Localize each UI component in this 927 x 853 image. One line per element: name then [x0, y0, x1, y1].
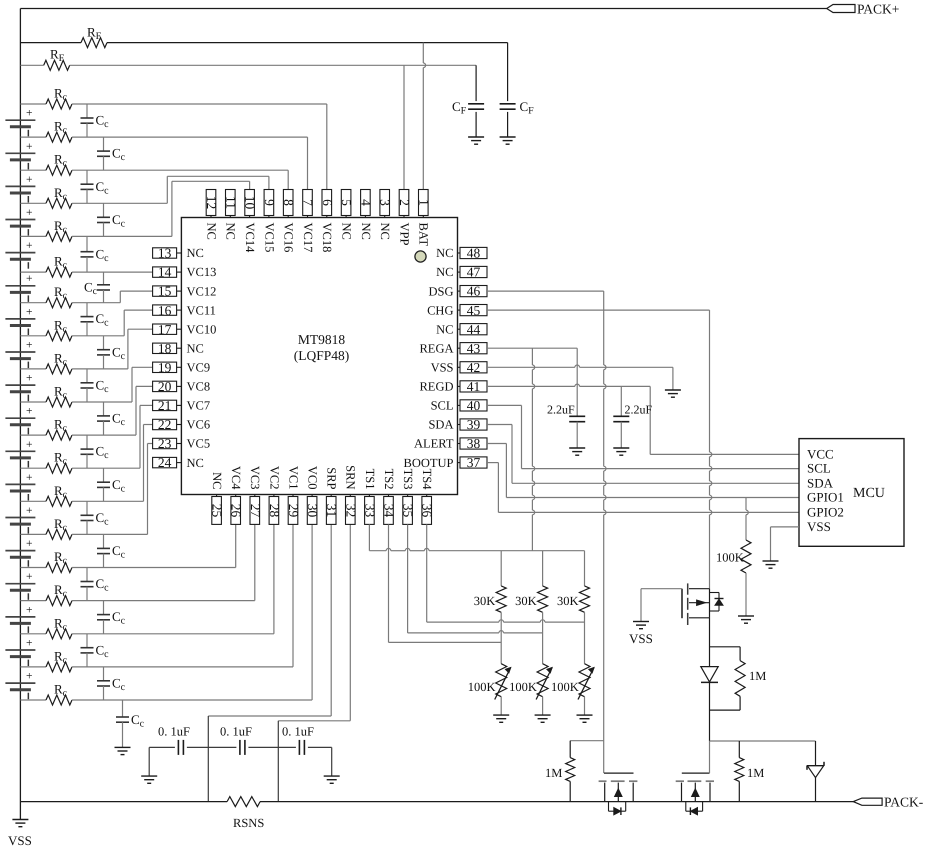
wire node CHG low: [710, 740, 816, 742]
svg-text:7: 7: [301, 199, 316, 206]
wire DSG net: [487, 291, 606, 773]
wire VC10 pin17: [128, 329, 153, 369]
svg-text:15: 15: [158, 284, 172, 299]
svg-text:30K: 30K: [474, 594, 496, 608]
svg-text:9: 9: [262, 199, 277, 206]
transistor Q3 (CHG FET): [676, 773, 714, 802]
battery cell B13: [5, 505, 35, 534]
svg-text:TS4: TS4: [420, 469, 434, 491]
svg-text:MCU: MCU: [853, 486, 885, 501]
wire Q1 gate to VSS: [641, 589, 682, 622]
svg-text:45: 45: [467, 303, 481, 318]
svg-text:SCL: SCL: [807, 461, 831, 476]
pin 14 VC13 (left): [153, 265, 217, 280]
pin 34 TS2 (bottom): [382, 469, 397, 525]
pin 39 SDA (right): [428, 417, 487, 432]
svg-text:100K: 100K: [716, 551, 744, 565]
battery cell B15: [5, 571, 35, 600]
wire PACK+ top rail: [20, 8, 826, 10]
transistor Q1 (CHG control FET): [682, 583, 710, 625]
wire VC1 pin29: [292, 524, 294, 667]
wire SRP pin31: [208, 524, 331, 801]
resistor Rc tap 15 (cell junction 15): [20, 582, 254, 606]
svg-text:VSS: VSS: [807, 519, 831, 534]
svg-text:14: 14: [158, 265, 172, 280]
capacitor Cc 17: [81, 634, 110, 667]
pin 12 NC (top): [204, 190, 219, 240]
resistor Rc tap 17 (cell junction 17): [20, 648, 293, 672]
resistor 1M R2 (parallel D2): [710, 647, 767, 710]
pin 11 NC (top): [223, 190, 238, 240]
svg-text:NC: NC: [204, 223, 218, 240]
svg-text:18: 18: [158, 341, 172, 356]
svg-text:VC11: VC11: [187, 303, 216, 317]
battery cell B17: [5, 638, 35, 667]
ground R1: [738, 616, 754, 623]
capacitor Cc 15: [81, 568, 110, 601]
capacitor Cc 14: [97, 534, 126, 567]
resistor Rc tap 2 (cell junction 2): [20, 152, 288, 176]
pin 25 NC (bottom): [210, 472, 225, 524]
capacitor Cc 11: [81, 435, 110, 468]
svg-text:100K: 100K: [551, 680, 579, 694]
svg-text:NC: NC: [436, 322, 453, 336]
terminal PACK+: [827, 2, 900, 17]
svg-text:NC: NC: [436, 265, 453, 279]
capacitor Cc 7: [81, 303, 110, 336]
svg-text:SDA: SDA: [807, 475, 834, 490]
svg-text:VC17: VC17: [301, 223, 315, 253]
wire VC11 pin16: [124, 310, 152, 336]
svg-text:VSS: VSS: [629, 631, 653, 646]
pin 47 NC (right): [436, 265, 487, 280]
ground VSS main: [8, 802, 32, 848]
svg-text:48: 48: [467, 246, 481, 261]
svg-text:VC14: VC14: [243, 223, 257, 254]
pin 38 ALERT (right): [414, 436, 487, 451]
diode D1 body diode Q1: [710, 593, 724, 612]
svg-text:+: +: [26, 472, 33, 484]
pin 26 VC4 (bottom): [229, 466, 244, 525]
resistor 100K thermistor RT3: [551, 664, 594, 715]
capacitor CF2: [500, 43, 535, 137]
svg-text:VC7: VC7: [187, 399, 211, 413]
svg-text:37: 37: [467, 455, 481, 470]
svg-text:VC8: VC8: [187, 380, 211, 394]
svg-text:30: 30: [305, 504, 320, 518]
svg-text:VC16: VC16: [282, 223, 296, 253]
capacitor C2 0.1uF: [208, 725, 278, 755]
svg-text:BAT: BAT: [417, 223, 431, 247]
capacitor Cc 5: [81, 236, 110, 272]
wire VC2 pin28: [273, 524, 275, 633]
op-amp U1 MT9818 body: [181, 218, 457, 495]
pin 27 VC3 (bottom): [248, 466, 263, 525]
pin 8 VC16 (top): [281, 190, 296, 253]
resistor Rc tap 4 (cell junction 4): [20, 218, 172, 242]
svg-text:NC: NC: [378, 223, 392, 240]
svg-text:32: 32: [343, 504, 358, 518]
resistor Rc tap 8 (cell junction 8): [20, 350, 128, 374]
svg-text:VC2: VC2: [267, 466, 281, 490]
wire VPP pin to RF2: [403, 65, 405, 189]
pin 45 CHG (right): [427, 303, 487, 318]
resistor Rc tap 18 (cell junction 18): [20, 682, 312, 706]
svg-text:16: 16: [158, 303, 172, 318]
ground RT3: [577, 715, 593, 722]
resistor RF1: [20, 24, 507, 47]
svg-text:NC: NC: [436, 246, 453, 260]
pin 30 VC0 (bottom): [305, 466, 320, 525]
svg-text:+: +: [26, 273, 33, 285]
svg-text:NC: NC: [224, 223, 238, 240]
wire TS4 net: [427, 524, 585, 622]
pin 43 REGA (right): [419, 341, 487, 356]
svg-text:SRP: SRP: [325, 467, 339, 489]
svg-text:4: 4: [358, 199, 373, 206]
resistor Rc tap 14 (cell junction 14): [20, 549, 235, 573]
wire VCC to MCU: [650, 453, 799, 455]
pin 2 VPP (top): [397, 190, 412, 246]
svg-text:VC13: VC13: [187, 265, 217, 279]
pin 16 VC11 (left): [153, 303, 216, 318]
wire VC17 pin7: [307, 137, 309, 189]
pin 4 NC (top): [358, 190, 373, 240]
svg-text:TS2: TS2: [382, 469, 396, 490]
wire BOOTUP net: [487, 463, 799, 513]
svg-text:42: 42: [467, 360, 481, 375]
wire SDA net: [487, 425, 799, 484]
svg-text:GPIO1: GPIO1: [807, 490, 844, 505]
svg-text:12: 12: [204, 196, 219, 210]
svg-text:CHG: CHG: [427, 303, 453, 317]
capacitor Cc 10: [97, 402, 126, 435]
svg-text:23: 23: [158, 436, 172, 451]
svg-text:+: +: [26, 406, 33, 418]
wire left bus vertical: [19, 9, 21, 802]
svg-text:+: +: [26, 571, 33, 583]
svg-text:+: +: [26, 439, 33, 451]
ground C3: [324, 747, 340, 783]
svg-text:27: 27: [248, 504, 263, 518]
ground CF1: [468, 137, 484, 144]
capacitor Cc 8: [97, 336, 126, 369]
wire VC0 pin30: [311, 524, 313, 700]
svg-text:VC0: VC0: [306, 466, 320, 490]
svg-text:17: 17: [158, 322, 172, 337]
resistor Rc tap 5 (cell junction 5): [20, 254, 152, 278]
pin 35 TS3 (bottom): [401, 469, 416, 525]
wire VC16 pin8: [287, 170, 289, 189]
pin 24 NC (left): [153, 455, 204, 470]
svg-text:13: 13: [158, 246, 172, 261]
svg-text:VC1: VC1: [286, 466, 300, 490]
wire VC15 pin9: [167, 176, 269, 203]
svg-text:TS1: TS1: [363, 469, 377, 490]
battery cell B18: [5, 671, 35, 700]
capacitor Cc 1: [81, 104, 110, 137]
svg-text:SRN: SRN: [344, 465, 358, 489]
svg-text:VC12: VC12: [187, 284, 217, 298]
pin 17 VC10 (left): [153, 322, 217, 337]
pin 6 VC18 (top): [320, 190, 335, 253]
svg-text:100K: 100K: [509, 680, 537, 694]
svg-text:VCC: VCC: [807, 446, 834, 461]
ground Q1 gate: [629, 622, 653, 647]
resistor 1M R3: [735, 741, 765, 802]
resistor Rc tap 0 (cell junction 0): [20, 86, 326, 110]
wire ALERT net: [487, 444, 799, 498]
capacitor Cc 16: [97, 601, 126, 634]
capacitor Cc 13: [81, 501, 110, 534]
ground RT2: [535, 715, 551, 722]
wire TS2 net: [389, 524, 502, 642]
wire VSS pin42 net: [487, 365, 673, 390]
resistor 100K thermistor RT2: [509, 664, 552, 715]
battery cell B12: [5, 472, 35, 501]
battery cell B8: [5, 340, 35, 369]
capacitor CF1: [452, 65, 484, 137]
svg-text:VC3: VC3: [248, 466, 262, 490]
wire VC9 pin19: [132, 367, 153, 402]
svg-text:35: 35: [401, 504, 416, 518]
pin 9 VC15 (top): [262, 190, 277, 253]
pin 15 VC12 (left): [153, 284, 217, 299]
svg-text:NC: NC: [187, 246, 204, 260]
wire VC14 pin10: [172, 181, 250, 236]
svg-text:19: 19: [158, 360, 172, 375]
diode D3 zener: [807, 741, 824, 802]
wire VC3 pin27: [254, 524, 256, 600]
svg-text:1M: 1M: [749, 669, 766, 683]
resistor 100K thermistor RT1: [468, 664, 511, 715]
svg-text:VSS: VSS: [8, 833, 32, 848]
resistor Rc tap 10 (cell junction 10): [20, 417, 136, 441]
wire FET2 gate drop: [709, 741, 711, 773]
svg-text:DSG: DSG: [428, 284, 453, 298]
battery cell B3: [5, 174, 35, 203]
battery cell B2: [5, 141, 35, 170]
svg-text:47: 47: [467, 265, 481, 280]
capacitor Cc 12: [97, 468, 126, 501]
pin 33 TS1 (bottom): [362, 469, 377, 525]
battery cell B5: [5, 240, 35, 269]
svg-text:0. 1uF: 0. 1uF: [282, 725, 314, 739]
resistor Rc tap 9 (cell junction 9): [20, 384, 132, 408]
svg-text:2.2uF: 2.2uF: [547, 403, 575, 417]
svg-text:+: +: [26, 306, 33, 318]
svg-text:VC15: VC15: [262, 223, 276, 253]
resistor 30K R7: [557, 551, 590, 664]
wire VC5 pin23: [148, 444, 153, 535]
pin 21 VC7 (left): [153, 398, 211, 413]
pin 37 BOOTUP (right): [403, 455, 487, 470]
pin 18 NC (left): [153, 341, 204, 356]
battery cell B1: [5, 108, 35, 137]
ground Cc19: [115, 747, 131, 754]
svg-text:39: 39: [467, 417, 481, 432]
resistor 100K R1: [716, 498, 751, 617]
svg-text:+: +: [26, 141, 33, 153]
svg-text:VC18: VC18: [320, 223, 334, 253]
svg-text:34: 34: [382, 504, 397, 518]
wire VC12 pin15: [120, 291, 152, 303]
svg-text:REGA: REGA: [419, 341, 453, 355]
svg-text:VC9: VC9: [187, 361, 211, 375]
svg-text:(LQFP48): (LQFP48): [294, 348, 350, 363]
svg-text:25: 25: [210, 504, 225, 518]
pin 44 NC (right): [436, 322, 487, 337]
ground C5: [613, 448, 629, 455]
wire VC8 pin20: [136, 386, 153, 435]
capacitor 2.2uF C5: [613, 386, 652, 448]
svg-text:VSS: VSS: [431, 361, 454, 375]
svg-text:SDA: SDA: [428, 418, 453, 432]
ground MCU VSS: [763, 561, 779, 568]
op-amp U2 MCU box: [799, 439, 904, 547]
pin 41 REGD (right): [419, 379, 487, 394]
diode D4 body diode Q2: [609, 802, 626, 815]
wire VC18 pin6: [326, 104, 328, 190]
ground RT1: [493, 715, 509, 722]
capacitor Cc 4: [97, 203, 126, 236]
battery cell B7: [5, 306, 35, 335]
capacitor Cc 3: [81, 170, 110, 203]
pin 22 VC6 (left): [153, 417, 211, 432]
svg-text:36: 36: [420, 504, 435, 518]
svg-text:46: 46: [467, 284, 481, 299]
wire Q1 to D2: [709, 618, 711, 667]
wire SRN pin32: [278, 524, 350, 801]
svg-text:NC: NC: [187, 456, 204, 470]
pin 36 TS4 (bottom): [420, 469, 435, 525]
pin 1 indicator dot: [415, 251, 426, 262]
svg-text:NC: NC: [359, 223, 373, 240]
svg-text:33: 33: [362, 504, 377, 518]
svg-text:+: +: [26, 538, 33, 550]
svg-text:GPIO2: GPIO2: [807, 504, 844, 519]
svg-text:20: 20: [158, 379, 172, 394]
svg-text:VC6: VC6: [187, 418, 211, 432]
svg-text:VC10: VC10: [187, 322, 217, 336]
wire BAT pin to RF1: [423, 43, 425, 190]
svg-text:24: 24: [158, 455, 172, 470]
capacitor Cc 19 (to ground): [116, 700, 145, 747]
pin 48 NC (right): [436, 246, 487, 261]
battery cell B11: [5, 439, 35, 468]
svg-text:40: 40: [467, 398, 481, 413]
pin 32 SRN (bottom): [343, 465, 358, 524]
capacitor C1 0.1uF: [149, 725, 208, 755]
resistor Rc tap 6 (cell junction 6): [20, 284, 120, 308]
pin 40 SCL (right): [431, 398, 487, 413]
wire REGD net: [487, 384, 650, 454]
pin 46 DSG (right): [428, 284, 487, 299]
wire MCU VSS: [771, 527, 800, 561]
svg-text:0. 1uF: 0. 1uF: [158, 725, 190, 739]
svg-text:REGD: REGD: [419, 380, 453, 394]
pin 28 VC2 (bottom): [267, 466, 282, 525]
svg-text:NC: NC: [187, 341, 204, 355]
svg-text:+: +: [26, 604, 33, 616]
svg-text:ALERT: ALERT: [414, 437, 454, 451]
svg-text:38: 38: [467, 436, 481, 451]
svg-text:28: 28: [267, 504, 282, 518]
terminal PACK-: [853, 795, 923, 810]
wire TS3 net: [408, 524, 543, 633]
resistor 30K R6: [515, 551, 548, 664]
capacitor C3 0.1uF: [278, 725, 331, 755]
svg-text:8: 8: [281, 199, 296, 206]
svg-text:3: 3: [378, 199, 393, 206]
capacitor Cc 9: [81, 369, 110, 402]
svg-text:11: 11: [223, 196, 238, 209]
battery cell B10: [5, 406, 35, 435]
svg-text:10: 10: [243, 196, 258, 210]
pin 3 NC (top): [378, 190, 393, 240]
pin 5 NC (top): [339, 190, 354, 240]
battery cell B9: [5, 373, 35, 402]
wire PACK- bottom rail: [20, 801, 853, 803]
pin 31 SRP (bottom): [324, 467, 339, 524]
pin 1 BAT (top): [416, 190, 431, 247]
svg-text:PACK+: PACK+: [857, 2, 899, 17]
svg-text:6: 6: [320, 199, 335, 206]
svg-text:SCL: SCL: [431, 399, 454, 413]
svg-text:+: +: [26, 207, 33, 219]
resistor Rc tap 13 (cell junction 13): [20, 516, 147, 540]
svg-text:43: 43: [467, 341, 481, 356]
svg-text:100K: 100K: [468, 680, 496, 694]
capacitor Cc 6: [84, 272, 110, 303]
capacitor Cc 2: [97, 137, 126, 170]
resistor 30K R5: [474, 551, 507, 664]
svg-text:RSNS: RSNS: [233, 816, 264, 830]
pin 7 VC17 (top): [301, 190, 316, 253]
svg-text:1M: 1M: [747, 766, 764, 780]
svg-text:2: 2: [397, 199, 412, 206]
ground CF2: [500, 137, 516, 144]
svg-text:1M: 1M: [545, 766, 562, 780]
diode D2: [701, 667, 718, 741]
wire CHG net: [487, 310, 712, 589]
svg-text:30K: 30K: [515, 594, 537, 608]
svg-text:22: 22: [158, 417, 172, 432]
wire VC6 pin22: [144, 425, 153, 502]
wire SCL net: [487, 405, 799, 468]
svg-text:+: +: [26, 108, 33, 120]
wire TS1 bus: [369, 524, 584, 550]
svg-text:26: 26: [229, 504, 244, 518]
pin 13 NC (left): [153, 246, 204, 261]
svg-text:VC5: VC5: [187, 437, 211, 451]
resistor Rc tap 16 (cell junction 16): [20, 615, 274, 639]
diode D5 body diode Q3: [686, 802, 703, 815]
svg-text:+: +: [26, 373, 33, 385]
svg-text:+: +: [26, 174, 33, 186]
pin 19 VC9 (left): [153, 360, 211, 375]
capacitor Cc 18: [97, 667, 126, 700]
resistor RSNS: [227, 797, 264, 830]
svg-text:31: 31: [324, 504, 339, 518]
svg-text:2.2uF: 2.2uF: [625, 403, 653, 417]
ground C4: [569, 448, 585, 455]
svg-text:41: 41: [467, 379, 481, 394]
wire REGA net: [487, 348, 577, 551]
svg-text:MT9818: MT9818: [298, 332, 346, 347]
svg-text:VC4: VC4: [229, 466, 243, 490]
svg-text:0. 1uF: 0. 1uF: [220, 725, 252, 739]
